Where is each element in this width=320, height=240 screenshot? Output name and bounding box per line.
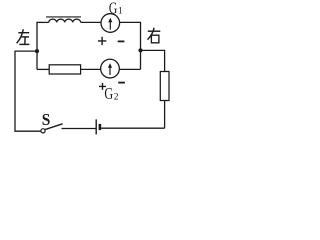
- bottom left wire to switch: [14, 130, 41, 132]
- switch S pivot circle: [41, 129, 45, 133]
- G1 needle arrowhead: [108, 18, 112, 23]
- right node column wire: [140, 22, 142, 70]
- galvanometer G1 circle: [101, 14, 120, 33]
- galvanometer G2 needle: [109, 65, 111, 75]
- wire R1 to G2: [81, 68, 101, 70]
- galvanometer G1 needle: [109, 20, 111, 30]
- G2 minus polarity mark: [118, 82, 125, 84]
- G1 minus polarity mark: [118, 40, 125, 42]
- wire coil to G1: [81, 21, 101, 23]
- wire G2 to right node: [119, 68, 140, 70]
- node junction dot left: [35, 49, 39, 53]
- wire top-left branch1: [37, 21, 49, 23]
- left node column wire: [36, 22, 38, 70]
- inductor L coil: [49, 19, 81, 22]
- left outer wire: [14, 51, 16, 132]
- right outer wire upper: [164, 50, 166, 71]
- wire battery to right: [101, 127, 164, 129]
- label 右 (right) hand-drawn: [148, 28, 161, 43]
- svg-text:S: S: [42, 110, 51, 129]
- wire G1 to right node: [120, 21, 141, 23]
- G2 needle arrowhead: [108, 63, 112, 67]
- switch S blade: [45, 124, 63, 130]
- battery long plate: [95, 119, 97, 134]
- wire branch2 left: [37, 68, 49, 70]
- svg-text:G: G: [104, 84, 113, 103]
- svg-text:G: G: [109, 0, 117, 17]
- right outer wire lower: [164, 100, 166, 128]
- galvanometer G2 circle: [101, 59, 120, 78]
- wire switch to battery: [62, 128, 96, 130]
- svg-text:1: 1: [118, 7, 123, 17]
- battery short plate: [99, 124, 102, 130]
- resistor R2 vertical box: [160, 72, 169, 101]
- inductor core line: [46, 16, 81, 18]
- wire left node to outer loop: [15, 50, 37, 52]
- wire right outer to right node: [141, 49, 166, 51]
- G1 plus polarity mark: [98, 37, 107, 45]
- G2 plus polarity mark: [99, 83, 106, 90]
- label 左 (left) hand-drawn: [17, 29, 30, 44]
- svg-text:2: 2: [114, 92, 119, 102]
- resistor R1 horizontal box: [49, 65, 80, 74]
- node junction dot right: [138, 48, 142, 52]
